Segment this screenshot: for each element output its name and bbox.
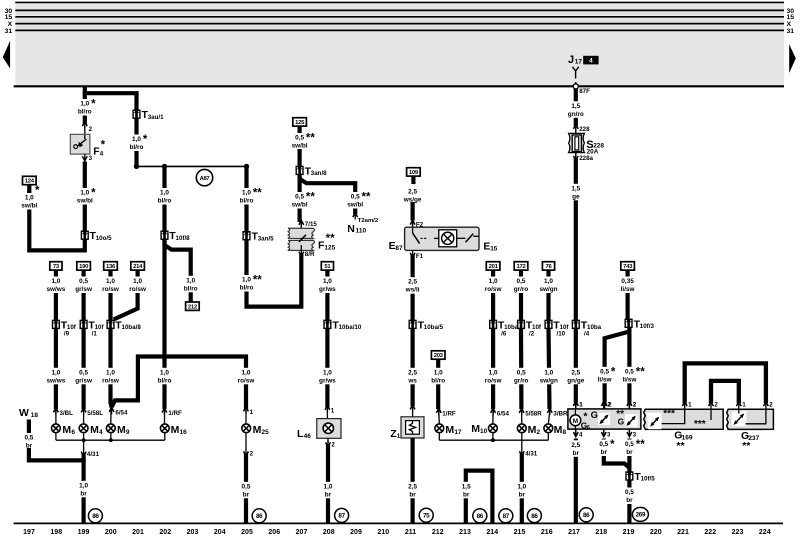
svg-text:212: 212	[188, 304, 198, 310]
svg-text:0,5: 0,5	[351, 194, 360, 201]
svg-text:87: 87	[395, 245, 403, 252]
svg-text:204: 204	[214, 529, 226, 536]
svg-text:2,5: 2,5	[408, 188, 417, 195]
svg-text:**: **	[253, 188, 262, 200]
svg-text:1,5: 1,5	[462, 483, 471, 490]
svg-text:2,5: 2,5	[571, 369, 580, 376]
svg-text:0,5: 0,5	[295, 135, 304, 142]
svg-text:ro/sw: ro/sw	[102, 377, 119, 384]
svg-text:**: **	[362, 192, 371, 204]
svg-text:1,0: 1,0	[79, 482, 88, 489]
svg-text:75: 75	[423, 513, 430, 520]
svg-text:1,0: 1,0	[80, 190, 89, 197]
svg-text:*: *	[610, 439, 615, 451]
svg-text:li/sw: li/sw	[622, 376, 636, 383]
svg-text:4/31: 4/31	[525, 451, 538, 458]
svg-text:M: M	[471, 423, 480, 435]
svg-text:gr/ws: gr/ws	[319, 377, 336, 384]
svg-text:2,5: 2,5	[408, 279, 417, 286]
svg-text:1,0: 1,0	[242, 190, 251, 197]
svg-text:172: 172	[517, 264, 527, 270]
svg-text:0,5: 0,5	[517, 278, 526, 285]
svg-text:br: br	[626, 449, 633, 456]
svg-text:0,5: 0,5	[79, 278, 88, 285]
svg-text:/10: /10	[557, 331, 566, 338]
svg-text:206: 206	[268, 529, 280, 536]
svg-text:215: 215	[514, 529, 526, 536]
svg-text:ro/sw: ro/sw	[485, 377, 502, 384]
svg-text:17: 17	[454, 429, 462, 436]
svg-text:br: br	[626, 497, 633, 504]
svg-text:*: *	[101, 140, 106, 152]
svg-text:br: br	[519, 491, 526, 498]
svg-text:bl/ro: bl/ro	[158, 198, 172, 205]
svg-text:10ba: 10ba	[504, 324, 519, 331]
svg-text:sw/ws: sw/ws	[46, 286, 65, 293]
svg-text:199: 199	[78, 529, 90, 536]
svg-text:6/54: 6/54	[115, 410, 128, 417]
svg-text:2,5: 2,5	[571, 442, 580, 449]
svg-text:bl/ro: bl/ro	[240, 198, 254, 205]
svg-text:br: br	[325, 491, 332, 498]
svg-text:br: br	[409, 491, 416, 498]
svg-text:2: 2	[89, 126, 93, 133]
svg-text:1,0: 1,0	[132, 136, 141, 143]
svg-text:16: 16	[180, 429, 188, 436]
svg-text:9: 9	[126, 429, 130, 436]
svg-text:0,5: 0,5	[625, 489, 634, 496]
svg-text:br: br	[80, 490, 87, 497]
svg-text:1: 1	[579, 401, 583, 408]
svg-text:203: 203	[187, 529, 199, 536]
svg-text:1,0: 1,0	[160, 190, 169, 197]
svg-text:3: 3	[607, 431, 611, 438]
svg-text:sw/gn: sw/gn	[540, 377, 558, 384]
svg-text:1: 1	[688, 402, 692, 409]
svg-text:1,0: 1,0	[323, 369, 332, 376]
svg-text:li/sw: li/sw	[598, 376, 612, 383]
svg-text:1,0: 1,0	[489, 278, 498, 285]
svg-text:10o/5: 10o/5	[96, 235, 112, 242]
svg-text:3: 3	[89, 155, 93, 162]
svg-text:*: *	[143, 134, 148, 146]
svg-text:/4: /4	[584, 331, 590, 338]
svg-text:136: 136	[106, 264, 116, 270]
svg-text:4: 4	[579, 431, 583, 438]
svg-text:202: 202	[159, 529, 171, 536]
svg-text:sw/gn: sw/gn	[539, 286, 557, 293]
svg-text:124: 124	[25, 179, 35, 185]
svg-text:M: M	[117, 424, 126, 436]
svg-text:15: 15	[490, 246, 498, 253]
svg-text:223: 223	[732, 529, 744, 536]
svg-text:10ba/10: 10ba/10	[339, 324, 362, 331]
svg-text:G: G	[618, 416, 625, 426]
svg-text:bl/ro: bl/ro	[158, 377, 172, 384]
svg-text:W: W	[19, 407, 29, 419]
svg-text:ws: ws	[407, 377, 417, 384]
svg-text:207: 207	[296, 529, 308, 536]
svg-text:220: 220	[650, 529, 662, 536]
svg-text:sw/bl: sw/bl	[21, 203, 37, 210]
svg-text:0,5: 0,5	[242, 483, 251, 490]
svg-text:gn/ge: gn/ge	[567, 377, 584, 384]
svg-text:*: *	[91, 188, 96, 200]
svg-text:1/RF: 1/RF	[168, 410, 182, 417]
svg-text:1,0: 1,0	[517, 483, 526, 490]
svg-text:1,0: 1,0	[323, 278, 332, 285]
svg-text:**: **	[306, 192, 315, 204]
svg-text:3an/8: 3an/8	[311, 170, 327, 177]
svg-text:1: 1	[331, 407, 335, 414]
svg-text:201: 201	[132, 529, 144, 536]
svg-text:210: 210	[377, 529, 389, 536]
svg-text:M: M	[171, 424, 180, 436]
svg-text:M: M	[554, 424, 563, 436]
svg-text:2: 2	[714, 402, 718, 409]
svg-text:0,5: 0,5	[625, 368, 634, 375]
svg-text:86: 86	[477, 513, 484, 520]
svg-text:197: 197	[23, 529, 35, 536]
svg-text:1,0: 1,0	[133, 278, 142, 285]
svg-text:ro/sw: ro/sw	[102, 286, 119, 293]
svg-text:1,0: 1,0	[544, 369, 553, 376]
svg-text:86: 86	[256, 513, 263, 520]
svg-text:gr/ro: gr/ro	[514, 286, 529, 293]
svg-text:bl/ro: bl/ro	[184, 285, 198, 292]
svg-text:**: **	[636, 439, 645, 451]
svg-text:10ba: 10ba	[587, 324, 602, 331]
svg-text:125: 125	[324, 245, 335, 252]
svg-text:190: 190	[79, 264, 89, 270]
svg-text:213: 213	[459, 529, 471, 536]
svg-text:1,0: 1,0	[51, 278, 60, 285]
svg-text:31: 31	[5, 28, 13, 35]
svg-text:J: J	[568, 54, 574, 66]
svg-text:1,0: 1,0	[489, 369, 498, 376]
svg-text:M: M	[253, 424, 262, 436]
svg-text:ge: ge	[572, 193, 580, 200]
svg-text:3: 3	[633, 431, 637, 438]
svg-text:87: 87	[503, 513, 510, 520]
svg-text:203: 203	[434, 353, 444, 359]
svg-text:201: 201	[489, 264, 499, 270]
svg-text:10f/5: 10f/5	[641, 476, 656, 483]
svg-text:269: 269	[636, 512, 646, 519]
svg-text:gr/sw: gr/sw	[75, 286, 92, 293]
svg-text:6: 6	[71, 429, 75, 436]
svg-text:109: 109	[409, 170, 419, 176]
svg-text:4: 4	[100, 151, 104, 158]
svg-text:0,35: 0,35	[621, 278, 634, 285]
svg-text:86: 86	[92, 513, 99, 520]
svg-text:0,5: 0,5	[625, 441, 634, 448]
svg-text:8: 8	[563, 429, 567, 436]
svg-text:0,5: 0,5	[517, 369, 526, 376]
svg-text:**: **	[306, 133, 315, 145]
svg-text:10: 10	[480, 428, 488, 435]
svg-text:br: br	[243, 491, 250, 498]
svg-text:4: 4	[589, 58, 593, 65]
svg-text:M: M	[90, 424, 99, 436]
svg-text:1,0: 1,0	[186, 277, 195, 284]
svg-text:/9: /9	[64, 331, 70, 338]
svg-text:**: **	[636, 367, 645, 379]
svg-text:87F: 87F	[579, 88, 590, 95]
svg-text:1,0: 1,0	[160, 369, 169, 376]
svg-text:2: 2	[250, 451, 254, 458]
svg-text:219: 219	[623, 529, 635, 536]
svg-text:4/31: 4/31	[87, 451, 100, 458]
svg-text:gr/sw: gr/sw	[75, 377, 92, 384]
svg-text:4: 4	[99, 429, 103, 436]
svg-text:br: br	[463, 491, 470, 498]
svg-text:18: 18	[31, 412, 39, 419]
svg-text:M: M	[528, 424, 537, 436]
svg-text:sw/ws: sw/ws	[46, 377, 65, 384]
svg-text:73: 73	[53, 264, 60, 270]
svg-text:6: 6	[587, 425, 590, 431]
svg-text:**: **	[676, 440, 685, 452]
svg-text:86: 86	[583, 512, 590, 519]
svg-text:221: 221	[677, 529, 689, 536]
svg-text:5/58L: 5/58L	[87, 410, 103, 417]
svg-text:217: 217	[568, 529, 580, 536]
svg-text:8/R: 8/R	[305, 251, 315, 258]
svg-text:1,0: 1,0	[324, 483, 333, 490]
svg-text:1,0: 1,0	[106, 369, 115, 376]
svg-text:3/BL: 3/BL	[60, 410, 74, 417]
svg-text:222: 222	[704, 529, 716, 536]
svg-text:M: M	[62, 424, 71, 436]
svg-text:198: 198	[50, 529, 62, 536]
svg-text:51: 51	[324, 264, 331, 270]
svg-text:1,0: 1,0	[242, 369, 251, 376]
svg-text:ws/li: ws/li	[405, 287, 420, 294]
svg-text:1,5: 1,5	[571, 185, 580, 192]
svg-text:86: 86	[531, 513, 538, 520]
svg-text:0,5: 0,5	[599, 441, 608, 448]
svg-text:205: 205	[241, 529, 253, 536]
svg-text:***: ***	[694, 419, 706, 430]
svg-text:N: N	[347, 223, 355, 235]
svg-text:bl/ro: bl/ro	[240, 285, 254, 292]
svg-text:208: 208	[323, 529, 335, 536]
svg-text:25: 25	[262, 429, 270, 436]
svg-text:1,0: 1,0	[51, 369, 60, 376]
svg-text:/1: /1	[92, 331, 98, 338]
svg-text:2: 2	[607, 401, 611, 408]
svg-text:125: 125	[295, 120, 305, 126]
svg-text:212: 212	[432, 529, 444, 536]
svg-text:1,0: 1,0	[25, 195, 34, 202]
svg-text:10f/8: 10f/8	[176, 235, 191, 242]
svg-text:200: 200	[105, 529, 117, 536]
svg-text:1: 1	[742, 402, 746, 409]
svg-text:0,5: 0,5	[79, 369, 88, 376]
svg-text:T2am/2: T2am/2	[358, 218, 379, 224]
svg-text:216: 216	[541, 529, 553, 536]
svg-text:/6: /6	[501, 331, 507, 338]
svg-text:224: 224	[759, 529, 771, 536]
svg-text:0,5: 0,5	[24, 435, 33, 442]
svg-text:110: 110	[356, 228, 367, 235]
svg-text:228a: 228a	[579, 155, 593, 162]
svg-text:218: 218	[595, 529, 607, 536]
svg-text:10ba/5: 10ba/5	[424, 324, 444, 331]
svg-text:6/54: 6/54	[497, 410, 510, 417]
svg-text:17: 17	[575, 59, 583, 66]
svg-text:0,5: 0,5	[295, 194, 304, 201]
svg-text:3an/5: 3an/5	[258, 235, 274, 242]
svg-text:2: 2	[633, 401, 637, 408]
svg-text:2: 2	[537, 429, 541, 436]
svg-text:gn/ro: gn/ro	[568, 111, 584, 118]
svg-text:**: **	[742, 440, 751, 452]
svg-text:3au/1: 3au/1	[148, 114, 164, 121]
svg-text:1,0: 1,0	[80, 101, 89, 108]
svg-text:1,5: 1,5	[571, 103, 580, 110]
svg-text:li/sw: li/sw	[621, 286, 635, 293]
svg-text:M: M	[445, 424, 454, 436]
svg-text:1,0: 1,0	[544, 278, 553, 285]
svg-text:**: **	[326, 233, 335, 245]
svg-text:bl/ro: bl/ro	[431, 377, 445, 384]
svg-text:31: 31	[787, 28, 795, 35]
svg-text:2,5: 2,5	[408, 369, 417, 376]
svg-text:/2: /2	[529, 331, 535, 338]
svg-text:br: br	[601, 449, 608, 456]
svg-text:1/RF: 1/RF	[442, 410, 456, 417]
svg-text:1,0: 1,0	[106, 278, 115, 285]
svg-text:ro/sw: ro/sw	[485, 286, 502, 293]
svg-text:1: 1	[397, 433, 401, 440]
svg-text:**: **	[253, 275, 262, 287]
svg-text:1: 1	[250, 409, 254, 416]
svg-text:***: ***	[663, 409, 675, 420]
svg-text:*: *	[611, 367, 616, 379]
svg-text:F1: F1	[416, 253, 424, 260]
svg-text:5/58R: 5/58R	[525, 410, 542, 417]
svg-text:7/15: 7/15	[305, 221, 318, 228]
svg-text:ro/sw: ro/sw	[129, 286, 146, 293]
svg-text:G: G	[591, 409, 598, 420]
svg-text:1,0: 1,0	[434, 369, 443, 376]
svg-text:2: 2	[769, 402, 773, 409]
svg-text:M: M	[573, 418, 578, 425]
svg-text:76: 76	[546, 264, 553, 270]
svg-text:*: *	[91, 99, 96, 111]
svg-text:ro/sw: ro/sw	[238, 377, 255, 384]
svg-text:0,5: 0,5	[600, 368, 609, 375]
svg-text:A87: A87	[200, 176, 210, 182]
svg-text:bl/ro: bl/ro	[130, 144, 144, 151]
svg-text:2: 2	[331, 442, 335, 449]
svg-text:10ba/8: 10ba/8	[122, 324, 142, 331]
svg-text:10f/3: 10f/3	[640, 323, 655, 330]
svg-text:gr/ws: gr/ws	[319, 286, 336, 293]
svg-text:1,0: 1,0	[242, 277, 251, 284]
svg-text:209: 209	[350, 529, 362, 536]
svg-text:46: 46	[304, 433, 312, 440]
svg-text:228: 228	[579, 126, 590, 133]
svg-text:214: 214	[486, 529, 498, 536]
svg-text:87: 87	[338, 513, 345, 520]
svg-text:3/BR: 3/BR	[553, 410, 568, 417]
svg-text:211: 211	[405, 529, 416, 536]
svg-text:743: 743	[623, 264, 633, 270]
svg-text:bl/ro: bl/ro	[78, 109, 92, 116]
svg-text:gr/ro: gr/ro	[514, 377, 529, 384]
svg-text:214: 214	[133, 264, 143, 270]
svg-text:br: br	[573, 450, 580, 457]
svg-text:2,5: 2,5	[408, 483, 417, 490]
